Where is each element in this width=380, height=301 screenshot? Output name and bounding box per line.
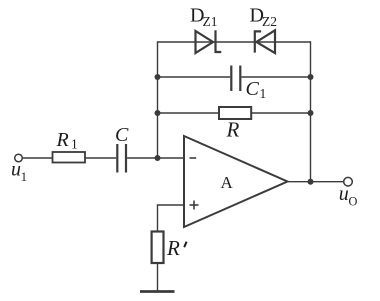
zener diode DZ1 <box>196 30 222 53</box>
svg-text:1: 1 <box>21 170 27 184</box>
svg-text:u: u <box>11 159 21 181</box>
junction: left rail / input line <box>155 155 161 161</box>
svg-text:A: A <box>221 173 234 192</box>
junction: left rail / C1 line <box>155 74 161 80</box>
junction: right rail / output line <box>308 179 314 185</box>
wire: R' to ground <box>157 263 159 292</box>
svg-text:Z1: Z1 <box>203 14 218 29</box>
resistor R <box>219 107 251 119</box>
svg-text:Z2: Z2 <box>262 14 277 29</box>
svg-text:1: 1 <box>260 86 267 101</box>
label C1 <box>246 78 267 101</box>
label A (op-amp) <box>221 173 234 192</box>
label R (feedback) <box>226 118 240 142</box>
wire: main input line y=158 <box>22 157 184 159</box>
svg-text:O: O <box>349 194 358 208</box>
label DZ2 <box>250 5 278 30</box>
svg-text:R: R <box>226 118 240 142</box>
svg-text:1: 1 <box>71 137 78 152</box>
wire: R feedback line y=113 <box>158 112 311 114</box>
svg-text:R: R <box>56 129 69 151</box>
label C (input capacitor) <box>115 124 129 146</box>
op-amp inverting input minus sign <box>190 157 197 159</box>
input terminal u1 <box>15 154 23 162</box>
label uO <box>339 183 358 208</box>
label R1 <box>56 129 78 152</box>
capacitor C1 <box>231 66 240 92</box>
wire: left feedback rail x=157.5 <box>157 41 159 158</box>
output terminal uO <box>344 177 353 186</box>
wire: non-inverting input to R' <box>158 205 185 232</box>
junction: right rail / C1 line <box>308 74 314 80</box>
label DZ1 <box>190 5 218 30</box>
resistor R' <box>152 232 164 264</box>
wire: top feedback line through zener diodes y=42 <box>158 41 311 43</box>
svg-text:C: C <box>115 124 129 146</box>
svg-text:C: C <box>246 78 260 100</box>
wire: C1 feedback line y=77 <box>158 76 311 78</box>
svg-text:R: R <box>166 236 180 260</box>
ground <box>140 290 175 293</box>
svg-text:u: u <box>339 183 349 205</box>
wire: output line y=181.7 <box>288 181 344 183</box>
op-amp non-inverting input plus sign <box>190 201 199 210</box>
label u1 <box>11 159 27 184</box>
label R' <box>166 236 187 260</box>
wire: right feedback rail x=310.5 <box>310 41 312 181</box>
capacitor C <box>117 144 126 173</box>
junction: right rail / R line <box>308 110 314 116</box>
zener diode DZ2 <box>255 30 275 53</box>
op-amp U1 (A) <box>184 136 288 227</box>
resistor R1 <box>53 152 86 163</box>
junction: left rail / R line <box>155 110 161 116</box>
